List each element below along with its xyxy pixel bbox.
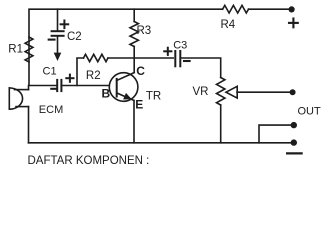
node supply + terminal dot [289,6,295,12]
node output upper dot [291,122,297,128]
ground minus symbol [287,152,302,154]
potentiometer VR [217,78,225,106]
wire R2 to collector node [108,57,173,59]
transistor TR (NPN) [109,73,138,143]
capacitor C3 [175,51,180,66]
svg-text:R2: R2 [86,70,101,82]
node output lower dot [291,139,297,145]
VR wiper arrow [226,86,237,98]
svg-text:DAFTAR KOMPONEN :: DAFTAR KOMPONEN : [28,155,150,167]
C3 minus sign [184,60,190,62]
wire top rail left segment [29,9,223,85]
wire R3 to collector [133,47,135,73]
wire bottom rail [29,142,292,144]
svg-text:R3: R3 [137,25,152,37]
wire wiper to output [237,91,290,93]
wire output bracket [259,125,291,143]
C3 plus sign [164,48,171,55]
svg-text:B: B [102,87,111,101]
wire node to C1 [29,85,57,87]
resistor R4 [223,5,249,13]
svg-text:C2: C2 [67,31,82,43]
svg-text:R4: R4 [221,19,236,31]
svg-text:ECM: ECM [39,104,63,116]
capacitor C2 (electrolytic) [52,9,64,61]
svg-text:TR: TR [146,90,161,102]
node wiper output dot [290,89,296,95]
wire C3 to VR [180,58,220,78]
svg-text:E: E [135,98,143,112]
svg-text:C3: C3 [173,39,187,51]
svg-text:OUT: OUT [298,106,322,118]
wire top rail right segment [249,8,292,10]
resistor R1 [25,37,33,62]
resistor R3 [130,22,138,47]
svg-text:C1: C1 [43,66,57,78]
wire R2 left stub [77,58,84,86]
C1 minus sign [51,88,56,90]
C1 plus sign [66,75,73,82]
C2 minus sign [49,39,55,41]
svg-text:C: C [136,64,145,78]
capacitor C1 [57,80,61,91]
wire C1 to base [61,85,116,87]
resistor R2 [84,54,109,61]
svg-text:R1: R1 [8,44,23,56]
supply + symbol [289,19,298,28]
wire top rail to R3 [133,9,135,21]
C2 plus sign [61,21,69,29]
microphone ECM symbol [9,86,28,143]
wire VR to bottom rail [220,105,222,143]
svg-text:VR: VR [193,86,209,98]
